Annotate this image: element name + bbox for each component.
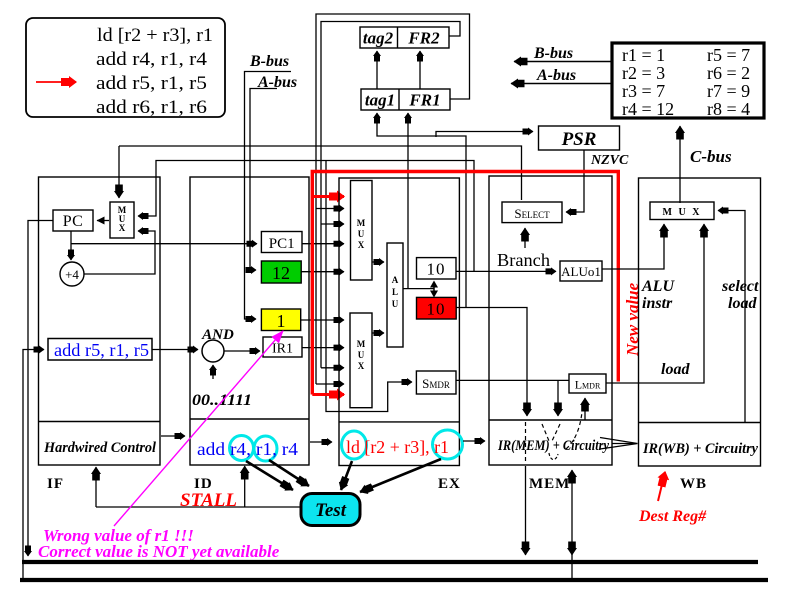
svg-text:M U X: M U X	[663, 207, 702, 218]
label Hardwired Control	[43, 440, 157, 456]
wire ld to Test	[341, 461, 352, 490]
wire SMDR to LMDR row	[456, 380, 569, 416]
label IR(WB) + Circuitry	[642, 441, 758, 457]
wire into tag1 from EX result bus	[377, 113, 466, 308]
svg-text:M: M	[357, 218, 366, 228]
svg-text:X: X	[358, 361, 365, 371]
wire FR2 feedback loop (inner) to EX muxes	[321, 22, 460, 368]
wire mask constant into AND	[212, 365, 214, 379]
label New value	[623, 282, 642, 357]
svg-text:r5 = 7: r5 = 7	[707, 45, 750, 65]
svg-text:NZVC: NZVC	[590, 153, 629, 168]
svg-text:X: X	[119, 223, 126, 233]
register ID instruction (add r4)	[197, 439, 298, 459]
wire red result to IR(MEM)	[456, 308, 527, 417]
wire B-bus out of register file	[514, 45, 612, 62]
wire r1(EX) to Test	[360, 459, 441, 492]
svg-text:Smdr: Smdr	[422, 376, 450, 391]
wire branch condition into SELECT	[524, 228, 526, 248]
wire ALU flags to PSR	[436, 132, 533, 138]
EX stage box	[339, 178, 459, 466]
wire PC1 to EX mux1	[302, 243, 344, 245]
memory address bus	[22, 560, 758, 564]
svg-text:Hardwired Control: Hardwired Control	[43, 440, 157, 456]
wire AND to IR1	[224, 350, 260, 352]
svg-text:X: X	[358, 240, 365, 250]
register tag1/FR1	[361, 89, 450, 110]
svg-text:r2 = 3: r2 = 3	[622, 63, 665, 83]
label WB	[680, 476, 707, 492]
wire ALU output	[403, 288, 434, 290]
svg-text:add r5, r1, r5: add r5, r1, r5	[96, 73, 207, 94]
mux EX upper (mux1)	[351, 181, 373, 281]
svg-text:load: load	[728, 295, 757, 312]
wire PC to PC1	[71, 243, 257, 245]
wire into FR1 from ALU output	[407, 113, 409, 289]
label IR(MEM) + Circuitry	[497, 438, 609, 454]
label load	[661, 361, 690, 378]
svg-text:r8 = 4: r8 = 4	[707, 99, 750, 119]
svg-text:r3 = 7: r3 = 7	[622, 81, 665, 101]
label Dest Reg#	[638, 508, 707, 525]
wire mux to PC	[97, 220, 109, 222]
svg-text:MEM: MEM	[529, 476, 570, 492]
node A-bus (left label and vertical wire to ID)	[250, 74, 297, 270]
svg-text:L: L	[392, 287, 398, 297]
svg-text:10: 10	[427, 300, 446, 319]
svg-text:A: A	[392, 275, 399, 285]
wire Dest Reg# pointer (red)	[658, 472, 665, 501]
label NZVC	[590, 153, 629, 168]
svg-text:M: M	[357, 339, 366, 349]
wire forwarding path (red, new value)	[312, 172, 618, 395]
wire yellow operand to EX mux2	[301, 319, 344, 321]
wire store data path to SMDR	[326, 161, 412, 412]
register PC1	[261, 232, 302, 253]
wire PC down to +4	[70, 231, 72, 260]
WB stage box	[639, 178, 761, 466]
register IR1	[263, 337, 302, 357]
label IF	[47, 476, 64, 492]
wire between result registers (double arrow)	[430, 281, 438, 298]
label ID	[194, 476, 213, 492]
svg-text:select: select	[721, 278, 759, 295]
svg-text:FR2: FR2	[407, 29, 440, 48]
wire A-bus out of register file	[511, 67, 612, 84]
IF stage box	[39, 177, 161, 465]
svg-text:IR1: IR1	[272, 342, 293, 357]
wire memory data to IF instruction register	[23, 350, 44, 581]
mux EX lower (mux2)	[350, 313, 372, 408]
svg-text:Select: Select	[514, 206, 550, 221]
svg-text:add r5, r1, r5: add r5, r1, r5	[54, 340, 149, 360]
alu EX	[387, 243, 403, 347]
current instruction pointer (red arrow)	[36, 81, 76, 83]
wire IF instruction to AND gate	[152, 349, 198, 351]
adder +4	[60, 262, 84, 286]
wire branch target into IF mux	[138, 161, 474, 272]
svg-text:B-bus: B-bus	[533, 45, 573, 62]
svg-text:Dest Reg#: Dest Reg#	[638, 508, 707, 525]
svg-text:U: U	[358, 229, 365, 239]
svg-text:EX: EX	[438, 476, 461, 492]
instruction list box	[26, 18, 225, 118]
svg-text:ALUo1: ALUo1	[561, 264, 601, 279]
svg-text:C-bus: C-bus	[690, 147, 732, 166]
svg-text:PC1: PC1	[269, 236, 295, 252]
svg-text:B-bus: B-bus	[249, 53, 289, 70]
svg-text:r6 = 2: r6 = 2	[707, 63, 750, 83]
wire ALUo1 to WB mux	[602, 224, 664, 269]
label Branch	[497, 250, 550, 270]
label wrong value	[43, 526, 194, 545]
wire ID instruction to EX	[310, 441, 332, 443]
svg-text:add r4, r1, r4: add r4, r1, r4	[96, 49, 208, 70]
wire dashed circuitry links	[526, 412, 583, 464]
wire select load from IR(WB)	[718, 211, 745, 423]
node B-bus (left label and vertical wire to ID)	[245, 53, 292, 319]
wire C-bus into register file	[680, 126, 732, 203]
svg-text:STALL: STALL	[180, 490, 237, 511]
mux WB	[650, 202, 714, 220]
wire IR(MEM) to LMDR	[584, 398, 586, 420]
label ALU instr	[641, 278, 675, 312]
wire IR(MEM) to memory address bus	[525, 466, 527, 555]
svg-text:r7 = 9: r7 = 9	[707, 81, 750, 101]
register operand B (green, value 12)	[261, 261, 301, 283]
svg-text:r4 = 12: r4 = 12	[622, 99, 674, 119]
label STALL	[180, 490, 237, 511]
svg-text:Test: Test	[315, 500, 347, 521]
PSR box	[539, 126, 620, 150]
wire SELECT to IF mux top	[119, 146, 522, 200]
wire mux2 to ALU	[372, 332, 384, 334]
register PC	[53, 210, 93, 231]
wire ALU result to ALUo1 (Branch)	[456, 270, 556, 272]
svg-text:Lmdr: Lmdr	[575, 378, 601, 392]
wire PC to memory address bus	[28, 221, 53, 557]
memory data bus	[20, 578, 768, 582]
register SMDR	[416, 371, 456, 394]
svg-text:U: U	[358, 350, 365, 360]
wire EX instruction to IR(MEM)	[463, 440, 485, 442]
svg-text:12: 12	[272, 263, 290, 283]
unit SELECT	[502, 202, 562, 223]
svg-text:U: U	[392, 299, 399, 309]
svg-text:Correct value is NOT yet avail: Correct value is NOT yet available	[38, 542, 280, 561]
svg-text:PSR: PSR	[561, 129, 597, 150]
register EX instruction (ld)	[346, 437, 449, 457]
svg-text:load: load	[661, 361, 690, 378]
label correct value	[38, 542, 280, 561]
wire IR(MEM) to IR(WB) open arrow	[600, 438, 638, 450]
svg-text:ld [r2 + r3], r1: ld [r2 + r3], r1	[97, 25, 213, 46]
mux IF (next PC select)	[110, 202, 134, 238]
wire green operand to EX mux1	[301, 271, 344, 273]
svg-text:PC: PC	[63, 213, 84, 230]
ID stage box	[190, 177, 309, 465]
svg-text:1: 1	[277, 311, 286, 331]
label MEM	[529, 476, 570, 492]
svg-text:IF: IF	[47, 476, 64, 492]
svg-text:FR1: FR1	[408, 91, 440, 110]
node circled ld	[342, 431, 367, 459]
label select load	[721, 278, 759, 312]
register operand A (yellow, value 1)	[261, 309, 300, 331]
wire tag1 to tag2	[376, 51, 378, 89]
register ALUo1	[560, 261, 602, 281]
svg-text:AND: AND	[201, 327, 234, 343]
svg-text:IR(MEM) + Circuitry: IR(MEM) + Circuitry	[497, 438, 609, 454]
wire r4 to Test	[246, 461, 293, 490]
wire FR1 to FR2	[419, 51, 421, 89]
unit Test	[301, 494, 360, 526]
svg-text:WB: WB	[680, 476, 707, 492]
register file box	[612, 43, 764, 119]
svg-text:ALU: ALU	[641, 278, 675, 295]
wire r1(ID) to Test	[269, 460, 309, 486]
gate AND	[201, 327, 234, 362]
svg-text:Branch: Branch	[497, 250, 550, 270]
svg-text:instr: instr	[642, 295, 673, 312]
wire memory data to MEM stage	[571, 470, 573, 580]
register ALU result 10 (white)	[417, 258, 457, 279]
wire PSR to SELECT	[566, 150, 584, 212]
wire mux1 to ALU	[372, 261, 384, 263]
register forwarded result 10 (red)	[417, 297, 457, 319]
wire IR1 to EX mux2	[302, 347, 344, 349]
node circled r1 (ID)	[254, 436, 277, 461]
wire FR1 feedback loop (outer) to EX muxes	[316, 14, 470, 384]
wire wrong-value pointer (magenta)	[114, 331, 283, 526]
wire hardwired control to ID	[161, 435, 185, 437]
svg-text:10: 10	[427, 260, 446, 279]
label 00..1111	[192, 392, 252, 409]
svg-text:tag2: tag2	[363, 29, 394, 48]
register tag2/FR2	[360, 27, 449, 48]
svg-text:add r4, r1, r4: add r4, r1, r4	[197, 439, 298, 459]
wire +4 back to mux	[84, 231, 155, 274]
svg-text:add r6, r1, r6: add r6, r1, r6	[96, 97, 207, 118]
svg-text:A-bus: A-bus	[536, 67, 576, 84]
wire LMDR to WB mux	[606, 224, 704, 383]
svg-text:tag1: tag1	[365, 91, 395, 110]
svg-text:r1 = 1: r1 = 1	[622, 45, 665, 65]
svg-text:+4: +4	[65, 267, 79, 282]
svg-text:ld [r2 + r3], r1: ld [r2 + r3], r1	[346, 437, 449, 457]
node circled r1 (EX)	[433, 430, 463, 459]
register IF instruction (add r5)	[48, 339, 152, 361]
MEM stage box	[489, 176, 612, 465]
label EX	[438, 476, 461, 492]
register LMDR	[569, 374, 606, 393]
wire stall feedback	[96, 466, 300, 507]
svg-text:IR(WB) + Circuitry: IR(WB) + Circuitry	[642, 441, 758, 457]
node circled r4	[230, 436, 254, 461]
